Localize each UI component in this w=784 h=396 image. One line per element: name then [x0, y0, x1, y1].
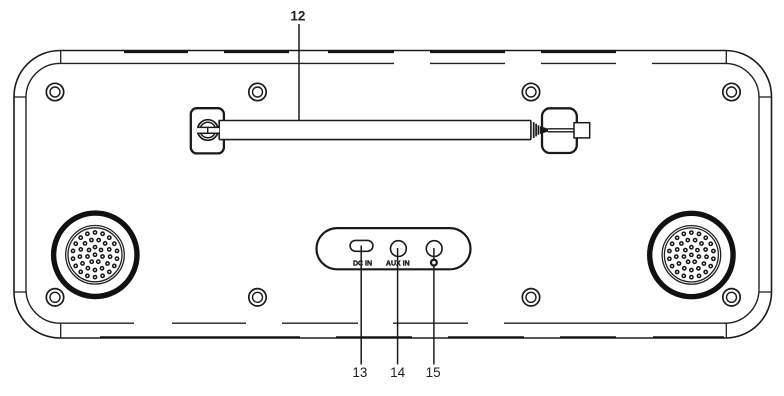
shell seam tick top-left vertical [60, 51, 62, 64]
shell seam tick bottom-right vertical [725, 323, 727, 338]
antenna rod end cap [530, 121, 532, 140]
leader line 12 [298, 24, 300, 131]
screw hole 6 [249, 289, 266, 306]
antenna pivot block [542, 108, 577, 153]
antenna mount screw head [198, 120, 219, 141]
leader line 14 [397, 248, 399, 365]
shell seam thick dashes top edge [124, 51, 726, 53]
right speaker grille outer ring [650, 213, 733, 296]
screw hole 7 [522, 289, 539, 306]
shell seam tick bottom-left horizontal [14, 291, 26, 293]
back panel right edge [758, 97, 760, 289]
antenna mount screw slot center tick [207, 127, 209, 133]
svg-text:15: 15 [426, 365, 441, 380]
right speaker hole pattern [668, 231, 715, 279]
headphone symbol [431, 260, 437, 266]
svg-text:DC IN: DC IN [353, 261, 372, 268]
shell seam thick dashes bottom edge [100, 336, 726, 338]
left speaker hole pattern [71, 231, 118, 279]
connector recess pill [317, 228, 471, 269]
screw hole 1 [46, 83, 63, 100]
shell seam tick top-right horizontal [759, 96, 771, 98]
svg-text:14: 14 [390, 365, 406, 380]
left speaker inner double circle [66, 226, 125, 285]
screw hole 8 [723, 289, 740, 306]
antenna mount screw slot [197, 128, 219, 133]
outer shell outline [14, 51, 772, 339]
back panel corner arcs [26, 63, 759, 323]
shell seam tick bottom-left vertical [60, 323, 62, 338]
headphone jack [426, 241, 442, 257]
left speaker grille outer ring [54, 213, 137, 296]
back panel bottom edge (dashed) [60, 322, 726, 324]
antenna tip rectangle [574, 123, 590, 138]
back panel left edge [25, 97, 27, 289]
shell seam tick bottom-right horizontal [759, 291, 771, 293]
antenna telescopic collars [533, 122, 535, 138]
DC IN jack [350, 240, 373, 251]
antenna rod (starts inside bracket) [219, 121, 531, 140]
svg-text:12: 12 [290, 9, 305, 24]
shell seam tick top-right vertical [725, 51, 727, 64]
right speaker inner double circle [662, 226, 721, 285]
screw hole 3 [522, 83, 539, 100]
antenna cone tip [541, 127, 548, 134]
shell seam tick top-left horizontal [14, 96, 26, 98]
AUX IN jack [391, 241, 407, 257]
back panel top edge (dashed) [60, 62, 726, 64]
screw hole 4 [723, 83, 740, 100]
leader line 13 [360, 246, 362, 365]
leader line 15 [433, 248, 435, 365]
screw hole 2 [249, 83, 266, 100]
antenna needle [548, 129, 575, 132]
antenna mount bracket [191, 108, 224, 153]
screw hole 5 [46, 289, 63, 306]
svg-text:13: 13 [352, 365, 367, 380]
